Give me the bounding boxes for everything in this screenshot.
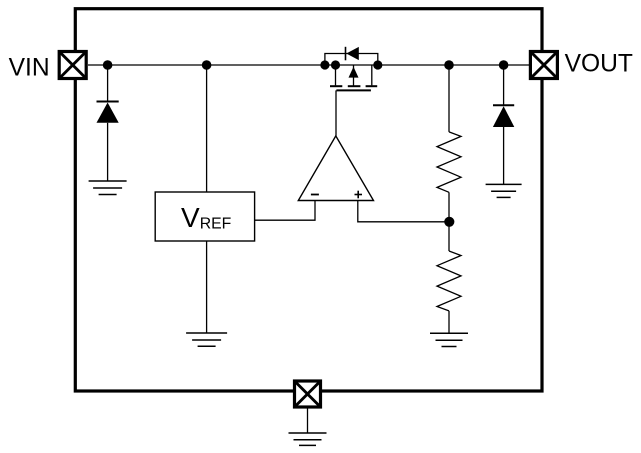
ground symbol for R2 [430,333,468,346]
resistor R1 [437,132,461,192]
diode D1 (VIN ESD diode) [97,102,119,123]
wire rail to diode D2 [503,65,505,105]
op-amp U1 error amplifier [298,136,373,201]
wire op-amp noninverting input to feedback node [358,201,450,222]
wire feedback node to R2 [448,222,450,251]
node VIN rail junction [103,60,113,70]
pin GND [295,381,321,407]
svg-text:VIN: VIN [9,54,50,81]
node feedback divider midpoint [444,217,454,227]
node Q1 drain on rail [373,60,382,69]
label VIN [9,54,50,81]
node Q1 source on rail [331,60,340,69]
wire rail to R1 [448,65,450,132]
wire GND pin to ground [307,407,309,433]
pin VOUT [530,52,557,79]
ground symbol for VREF [186,333,227,346]
wire op-amp output to gate of Q1 [335,90,337,135]
resistor R2 [437,251,461,311]
block VREF [155,192,254,241]
diode D2 (VOUT ESD diode) [493,105,514,127]
node VOUT diode tap on rail [499,60,509,70]
wire VIN to diode D1 [107,65,109,102]
node VREF tap on rail [202,60,212,70]
ground symbol for GND pin [289,433,327,445]
transistor Q1 PMOS pass element [325,47,378,91]
node Q1 body left on rail [320,60,329,69]
wire R2 to ground [448,311,450,333]
wire D2 to ground [503,127,505,184]
label VOUT [565,51,633,78]
node resistor divider top on rail [444,60,454,70]
wire VREF output to op-amp inverting input [255,201,315,221]
IC boundary box [75,9,542,391]
wire VREF to ground [206,241,208,333]
wire top rail VIN to VOUT [88,64,529,66]
wire R1 to feedback node [448,192,450,222]
ground symbol for D2 [486,184,522,197]
pin VIN [59,52,86,79]
wire rail to VREF block [206,65,208,192]
ground symbol for D1 [89,181,127,195]
svg-text:VOUT: VOUT [565,51,633,78]
wire D1 to ground [107,123,109,181]
